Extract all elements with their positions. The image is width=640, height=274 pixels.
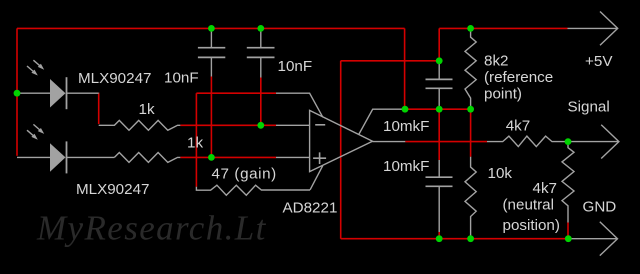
wire +5V rail drop to reference row [404,28,406,109]
Signal output arrow [568,125,619,159]
node C2 on +5V rail [257,25,264,32]
svg-text:4k7: 4k7 [533,180,558,197]
label AD8221 [283,200,338,217]
svg-text:10nF: 10nF [164,70,199,87]
capacitor C4 10mkF [426,160,453,232]
wire inverting input row (red) [180,124,276,126]
node ground rail R7 [565,235,572,242]
photodiode D2 MLX90247 [17,141,114,173]
svg-text:47 (gain): 47 (gain) [212,165,277,182]
wire long vertical ground riser (red) [340,61,342,239]
svg-text:10mkF: 10mkF [383,118,429,135]
watermark MyResearch.Lt [36,209,267,248]
node ground rail 10k [467,235,474,242]
label 10nF (C1) [164,70,199,87]
photodiode D1 MLX90247 [17,77,99,109]
label 1k (R2) [187,135,203,152]
label 1k (R1) [139,101,155,118]
wire C3 top to +5V rail (red) [438,28,440,60]
label Signal [568,99,610,116]
wire riser top to C3 (red) [341,60,440,62]
wire non-inverting input row (red) [180,156,276,158]
label 47 (gain) [212,165,277,182]
svg-text:GND: GND [583,199,617,216]
svg-text:MyResearch.Lt: MyResearch.Lt [36,209,267,248]
node C1 to +input row [208,154,215,161]
node reference row 8k2/10k [467,106,474,113]
capacitor C2 10nF [247,28,275,77]
node C3 top [436,57,443,64]
label 4k7 (R6) [506,118,531,135]
label 10mkF (C3) [383,118,429,135]
label 10mkF (C4) [383,158,429,175]
node C2 to -input row [257,122,264,129]
wire bottom ground rail (red) [341,238,569,240]
label MLX90247 (D2) [76,181,149,198]
node D1 anode on left rail [14,90,21,97]
resistor R4 8k2 [465,28,476,109]
node reference row C3 [436,106,443,113]
svg-text:(neutral: (neutral [503,197,555,214]
svg-text:10mkF: 10mkF [383,158,429,175]
svg-text:1k: 1k [139,101,155,118]
resistor R1 1k [99,120,181,130]
capacitor C3 10mkF [426,61,453,109]
label +5V [585,53,613,70]
resistor R6 4k7 horizontal [487,136,568,147]
svg-text:+5V: +5V [585,53,613,70]
wire RG bottom diagonal from R3 to op-amp [310,166,323,190]
wire -input gray into op-amp [276,124,310,126]
wire RG net vertical (red) [195,93,197,187]
svg-text:(reference: (reference [484,69,553,86]
svg-text:point): point) [484,86,522,103]
label MLX90247 (D1) [78,70,151,87]
op-amp U1 AD8221 [310,110,373,171]
node 8k2 on +5V rail [467,25,474,32]
wire 10k top lead highlight (red) [470,109,472,157]
wire op-amp output to ref row (gray) [359,109,405,134]
resistor R7 4k7 vertical (neutral position) [562,142,574,223]
node signal junction [565,138,572,145]
svg-text:4k7: 4k7 [506,118,531,135]
svg-text:10k: 10k [488,165,513,182]
node C1 on +5V rail [208,25,215,32]
wire reference row (red) [405,108,471,110]
wire +5V top rail (red) [17,27,405,29]
wire D1 cathode jog down (red) [98,93,100,124]
svg-text:position): position) [503,217,560,234]
wire +5V rail right segment (red) [439,27,567,29]
light arrows into D1 [27,60,44,75]
svg-text:10nF: 10nF [278,58,313,75]
capacitor C1 10nF [198,28,225,76]
GND output arrow [568,222,617,256]
wire left rail (red) [16,28,18,155]
wire C4 bottom to rail (red) [438,232,440,239]
wire C1 to +input (red) [210,77,212,158]
wire R7 bottom to rail (red) [567,223,569,239]
label 4k7 (neutral position) [503,180,560,234]
node ground rail C4 [436,235,443,242]
wire +input gray into op-amp [276,156,310,158]
svg-text:1k: 1k [187,135,203,152]
svg-text:Signal: Signal [568,99,610,116]
svg-text:MLX90247: MLX90247 [76,181,149,198]
resistor R2 1k [114,153,180,163]
light arrows into D2 [27,124,44,139]
wire output row to R6 (red) [405,141,487,143]
svg-text:MLX90247: MLX90247 [78,70,151,87]
svg-text:8k2: 8k2 [484,53,509,70]
wire op-amp output right (gray) [373,141,406,143]
label 10nF (C2) [278,58,313,75]
node reference row left [402,106,409,113]
label 8k2 (reference point) [484,53,553,103]
label GND [583,199,617,216]
resistor R3 47 gain [196,185,310,195]
wire RG net top horizontal (red) [196,92,276,94]
wire RG top gray and diagonal to op-amp [276,93,323,117]
label 10k (R5) [488,165,513,182]
wire C2 to -input (red) [260,78,262,126]
+5V output arrow [568,12,618,46]
wire C3 bottom to C4 top (red) [438,109,440,160]
resistor R5 10k [465,157,476,239]
svg-text:AD8221: AD8221 [283,200,338,217]
